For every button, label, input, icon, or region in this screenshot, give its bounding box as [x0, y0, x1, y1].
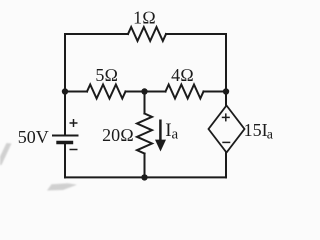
battery plus sign: [70, 119, 78, 127]
svg-text:50V: 50V: [18, 127, 49, 147]
watermark stripe lower-left: [0, 143, 12, 165]
wire top-left segment: [65, 33, 128, 35]
wire left vertical upper: [64, 34, 66, 136]
wire middle right segment: [204, 91, 227, 93]
resistor 1 ohm: [128, 27, 166, 41]
wire right vertical upper: [225, 34, 227, 92]
dependent source 15Ia diamond: [209, 106, 245, 153]
svg-text:5Ω: 5Ω: [95, 65, 118, 85]
junction node left: [62, 88, 68, 94]
wire middle left segment: [65, 91, 87, 93]
dependent source plus sign: [222, 113, 230, 121]
wire bottom: [65, 176, 226, 178]
svg-text:1Ω: 1Ω: [133, 7, 156, 27]
junction node right: [223, 88, 229, 94]
resistor 20 ohm: [137, 114, 152, 154]
wire dependent-source branch lower: [225, 153, 227, 178]
wire 20ohm branch lower: [144, 154, 146, 178]
wire left vertical lower: [64, 144, 66, 177]
wire dependent-source branch upper: [225, 92, 227, 106]
battery minus sign: [70, 149, 78, 151]
svg-text:20Ω: 20Ω: [102, 125, 134, 145]
resistor 5 ohm: [87, 85, 126, 99]
dependent source minus sign: [222, 141, 230, 143]
junction node center: [141, 88, 147, 94]
current arrow Ia: [155, 120, 166, 152]
wire 20ohm branch upper: [144, 92, 146, 114]
wire top-right segment: [166, 33, 226, 35]
watermark stripe bottom-center: [47, 183, 77, 190]
junction node bottom: [141, 174, 147, 180]
wire middle center segment: [126, 91, 166, 93]
svg-text:4Ω: 4Ω: [171, 65, 194, 85]
voltage source 50V battery bottom plate: [58, 141, 72, 144]
voltage source 50V battery top plate: [53, 135, 78, 137]
resistor 4 ohm: [166, 85, 204, 99]
